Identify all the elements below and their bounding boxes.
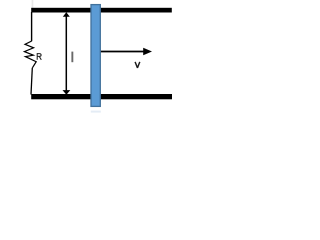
- resistor R: [24, 41, 36, 68]
- length arrow l (double-headed, between rails): [63, 12, 71, 95]
- label v: [135, 62, 140, 68]
- top rail: [31, 8, 172, 13]
- faint smudge below rod: [91, 111, 101, 113]
- label l: [71, 52, 73, 63]
- wire: top rail to resistor R: [31, 12, 33, 41]
- velocity arrow v: [101, 48, 152, 56]
- bottom rail: [31, 94, 172, 99]
- faint wire stub above top rail: [32, 0, 34, 8]
- wire: resistor R to bottom rail: [31, 68, 32, 95]
- label R: [37, 53, 41, 60]
- sliding rod (blue bar): [91, 5, 100, 107]
